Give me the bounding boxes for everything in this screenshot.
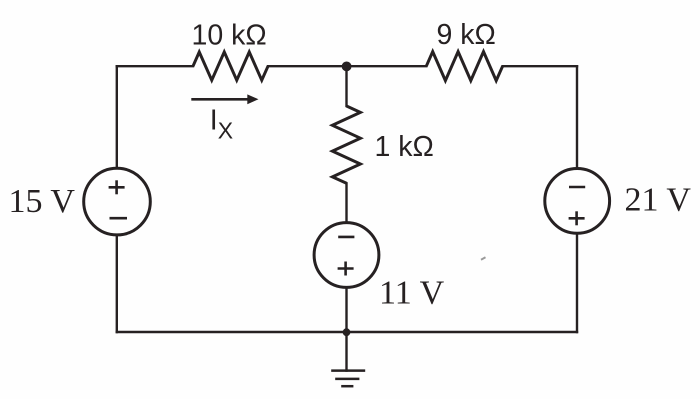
voltage source V1 15V circle (84, 168, 151, 235)
wire right vertical lower (576, 233, 578, 332)
current arrow Ix (191, 98, 249, 101)
V1 minus sign (110, 217, 128, 220)
voltage source V3 11V circle (314, 223, 379, 288)
wire left vertical lower (116, 235, 118, 332)
wire ground stub (345, 332, 347, 371)
node top junction dot (342, 62, 352, 72)
wire middle vertical lower (345, 287, 347, 332)
svg-text:10 kΩ: 10 kΩ (192, 20, 267, 52)
wire middle vertical mid (345, 183, 347, 222)
ground (331, 371, 365, 387)
resistor R 1 kOhm (vertical) (332, 106, 360, 183)
V1 plus sign (109, 180, 125, 194)
svg-text:9 kΩ: 9 kΩ (437, 19, 496, 51)
resistor R 10 kOhm (193, 52, 268, 80)
svg-text:1 kΩ: 1 kΩ (375, 131, 434, 163)
wire bottom horizontal (117, 331, 577, 333)
wire right vertical upper (576, 66, 578, 168)
stray mark artifact (481, 257, 486, 260)
svg-text:21 V: 21 V (625, 181, 692, 218)
wire middle vertical upper (345, 66, 347, 106)
svg-text:11 V: 11 V (379, 275, 445, 312)
V3 plus sign (338, 262, 354, 276)
V2 minus sign (569, 186, 585, 189)
V3 minus sign (338, 236, 354, 239)
wire top-right horizontal (503, 65, 577, 67)
wire top-left horizontal (117, 65, 193, 67)
wire top-middle horizontal (268, 65, 426, 67)
node bottom junction dot (343, 328, 351, 336)
voltage source V2 21V circle (545, 169, 610, 234)
resistor R 9 kOhm (426, 52, 502, 81)
svg-text:15 V: 15 V (9, 183, 76, 220)
V2 plus sign (569, 211, 585, 225)
wire left vertical upper (116, 66, 118, 168)
